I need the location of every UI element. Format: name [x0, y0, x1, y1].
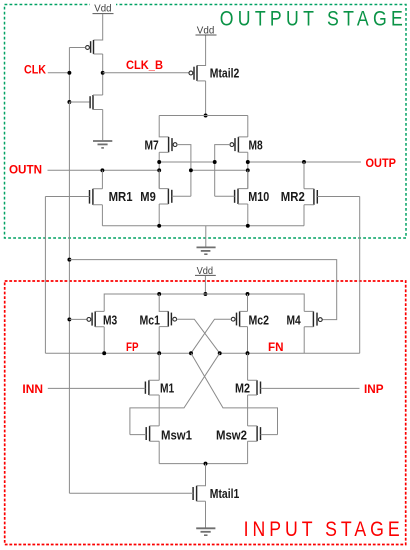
node Vdd (input stage supply) — [195, 265, 216, 277]
svg-text:CLK_B: CLK_B — [126, 58, 163, 72]
wire CLK tap to M4 — [69, 260, 336, 320]
wire Mc2 gate to FP diagonal — [191, 319, 231, 353]
transistor Mtail2 — [189, 66, 206, 81]
wire INP port — [261, 387, 360, 389]
wire M4 drain column — [303, 327, 305, 353]
wire Msw2 gate — [261, 434, 278, 436]
wire M7 source column — [159, 116, 168, 137]
node junction lower-right — [246, 168, 250, 172]
wire M2 drain column — [247, 353, 249, 380]
wire M10 drain column — [247, 170, 249, 188]
svg-text:M10: M10 — [248, 190, 269, 204]
svg-text:M3: M3 — [103, 313, 117, 327]
wire FP rail — [45, 352, 191, 354]
transistor M3 — [87, 311, 104, 326]
wire Mc1 source column — [159, 294, 168, 311]
wire OUTP port — [248, 161, 361, 163]
node junction M8 gate tap — [213, 160, 217, 164]
node junction CLK tap — [67, 258, 71, 262]
node junction upper-left — [157, 160, 161, 164]
transistor M10 — [235, 189, 248, 204]
wire M2 source column — [247, 395, 249, 426]
node junction NMOS gate — [67, 100, 71, 104]
svg-text:FN: FN — [268, 340, 284, 354]
transistor Msw1 — [146, 426, 159, 441]
svg-text:Vdd: Vdd — [94, 3, 111, 15]
wire Msw1 gate — [130, 434, 146, 436]
wire M10 source column — [247, 204, 249, 226]
node junction CLK_B — [101, 71, 105, 75]
svg-text:Mc1: Mc1 — [140, 313, 161, 327]
svg-text:OUTPUT STAGE: OUTPUT STAGE — [220, 7, 403, 31]
wire Mtail1 gate (CLK) — [69, 492, 193, 494]
ground (Mtail1) — [196, 528, 215, 535]
node junction Mc2-FN — [246, 351, 250, 355]
wire ground stem (latch) — [205, 226, 207, 247]
wire Mc2 source column — [247, 294, 249, 311]
wire Vdd stem to P1 source — [94, 14, 103, 40]
wire M8 source column — [247, 116, 249, 137]
wire CLK_B — [103, 72, 189, 74]
node junction MR1 drain — [100, 168, 104, 172]
node junction M3 gate tap — [67, 317, 71, 321]
node junction M3-FP — [102, 351, 106, 355]
svg-text:FP: FP — [126, 340, 139, 354]
wire M7 gate to cross vertical — [177, 145, 191, 197]
node junction tail rail — [204, 114, 208, 118]
transistor M9 — [159, 189, 172, 204]
transistor MR2 — [304, 189, 317, 205]
wire M8 gate to cross vertical — [215, 145, 230, 197]
wire CLK distribution vertical — [68, 102, 70, 493]
node junction FN-cross — [218, 351, 222, 355]
transistor M1 — [145, 380, 159, 395]
transistor Mc1 — [159, 311, 176, 326]
node junction Mtail1 drain — [204, 462, 208, 466]
wire P1 gate — [69, 47, 85, 49]
wire Msw2 source column — [247, 441, 249, 463]
wire OUTP lower segment — [191, 169, 248, 171]
node junction M10 source — [246, 224, 250, 228]
wire Mc1 gate to FN diagonal — [177, 319, 220, 353]
wire M9 drain column — [158, 170, 160, 188]
svg-text:OUTN: OUTN — [9, 163, 42, 177]
node Vdd (Mtail2 supply) — [196, 25, 217, 37]
svg-text:M2: M2 — [235, 382, 250, 396]
node junction OUTP-M8 drain — [246, 160, 250, 164]
transistor M4 — [304, 311, 322, 326]
svg-text:M7: M7 — [145, 138, 159, 152]
ground (latch) — [197, 247, 216, 254]
svg-text:Msw2: Msw2 — [216, 429, 247, 443]
svg-text:M8: M8 — [249, 138, 263, 152]
wire N1 gate — [69, 101, 89, 103]
wire M1 source column — [158, 395, 160, 426]
wire tail rail (input) — [159, 463, 247, 465]
node junction Mc1 source — [157, 292, 161, 296]
wire tail rail — [159, 115, 248, 117]
wire Mc2 drain column — [247, 327, 249, 354]
node junction M7 gate tap — [189, 168, 193, 172]
svg-text:Msw1: Msw1 — [161, 429, 192, 443]
wire MR1 drain column — [101, 170, 103, 189]
svg-text:OUTP: OUTP — [366, 156, 397, 170]
svg-text:MR1: MR1 — [109, 190, 133, 204]
node junction CLK-gate — [67, 71, 71, 75]
wire inverter drain column — [102, 54, 104, 95]
wire MR2 gate — [317, 196, 359, 198]
wire input Vdd rail — [104, 294, 304, 311]
wire M3 drain column — [103, 327, 105, 353]
transistor M7 — [159, 137, 177, 152]
ground (inverter) — [93, 141, 112, 148]
wire FN rail — [220, 352, 360, 354]
output stage box — [5, 5, 407, 239]
wire Msw1 source column — [158, 441, 160, 463]
wire latch source rail — [102, 225, 304, 227]
transistor M8 — [230, 137, 248, 152]
wire FN to Msw1 gate diagonal — [130, 353, 220, 434]
transistor Mc2 — [231, 311, 247, 326]
wire M9 source column — [158, 204, 160, 226]
svg-text:M4: M4 — [287, 313, 301, 327]
wire CLK port — [48, 72, 70, 74]
wire MR1 source column — [101, 205, 103, 226]
wire OUTN port — [48, 169, 160, 171]
wire N1 source to ground — [102, 110, 104, 141]
wire M9 gate — [172, 195, 191, 197]
wire Mtail1 source to ground — [205, 501, 207, 527]
wire Vdd stem (input) — [204, 276, 206, 294]
node junction MR2 drain — [302, 160, 306, 164]
svg-text:M1: M1 — [160, 382, 174, 396]
wire M10 gate — [215, 195, 235, 197]
svg-text:Mtail1: Mtail1 — [210, 487, 240, 501]
transistor Msw2 — [248, 426, 261, 441]
input stage box — [5, 281, 406, 545]
node junction FP-cross — [189, 351, 193, 355]
wire OUTN upper segment — [159, 161, 215, 163]
node junction Mc2 source — [246, 292, 250, 296]
wire M3 gate — [69, 318, 86, 320]
wire MR2 gate to FN — [359, 197, 361, 354]
wire MR1 gate — [45, 196, 89, 198]
svg-text:CLK: CLK — [24, 62, 46, 76]
wire M7 drain column — [158, 152, 160, 188]
transistor MR1 — [90, 189, 103, 205]
svg-text:INN: INN — [22, 382, 43, 396]
wire Vdd stem to Mtail2 source — [197, 36, 206, 66]
wire Mc1 drain column — [158, 327, 160, 354]
wire MR2 source column — [303, 205, 305, 226]
wire Mtail2 drain stem — [205, 81, 207, 116]
svg-text:Mtail2: Mtail2 — [210, 66, 240, 80]
transistor Mtail1 — [193, 486, 205, 501]
wire Mtail1 drain stem — [197, 464, 206, 486]
wire P1 drain stub — [94, 53, 103, 55]
wire M8 drain column — [247, 152, 249, 188]
wire MR1 gate to FP — [44, 197, 46, 354]
svg-text:M9: M9 — [140, 190, 156, 204]
node Vdd (inverter supply) — [90, 1, 116, 15]
wire INN port — [48, 387, 146, 389]
node junction M9 source — [157, 224, 161, 228]
wire M1 drain column — [158, 353, 160, 380]
node junction Mc1-FP — [157, 351, 161, 355]
svg-text:MR2: MR2 — [281, 190, 305, 204]
node junction OUTN-M7 drain — [157, 168, 161, 172]
wire inverter gate vertical — [68, 48, 70, 103]
transistor M2 — [248, 380, 261, 395]
transistor P1 (inverter PMOS) — [86, 40, 94, 54]
svg-text:INP: INP — [364, 382, 384, 396]
transistor N1 (inverter NMOS) — [90, 95, 103, 110]
wire FP to Msw2 gate diagonal — [191, 353, 278, 434]
svg-text:Mc2: Mc2 — [249, 313, 270, 327]
wire MR2 drain column — [303, 162, 305, 189]
node junction Vdd rail — [203, 292, 207, 296]
